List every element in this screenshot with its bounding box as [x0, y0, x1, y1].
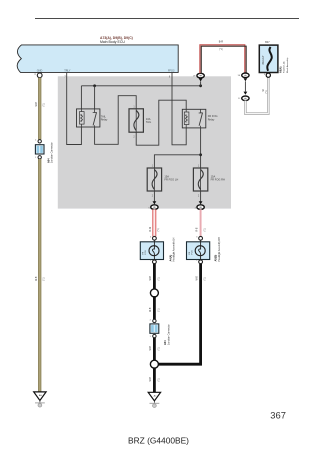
wire fuse bus: [154, 155, 200, 168]
node junction bus/TAIL switch: [93, 84, 96, 87]
svg-text:FOG: FOG: [191, 250, 193, 255]
svg-text:(*1): (*1): [158, 308, 160, 312]
wire W from in-line connector to fusible link: [245, 77, 268, 113]
connector exit RH (arrow + oval): [195, 201, 205, 209]
svg-text:W-B: W-B: [36, 276, 38, 281]
wire RH fuse to exit connector: [200, 191, 202, 202]
svg-text:FOG: FOG: [145, 250, 147, 255]
svg-text:Relay: Relay: [101, 118, 108, 122]
svg-text:1J: 1J: [238, 98, 240, 100]
wire LH fuse to exit connector: [153, 191, 155, 202]
svg-text:367: 367: [270, 409, 286, 420]
svg-text:B47: B47: [265, 41, 270, 44]
wire W-B ground (olive) lower: [36, 159, 46, 392]
svg-text:W-B: W-B: [196, 276, 198, 281]
wire R-W to LH fog lamp: [150, 209, 160, 236]
svg-text:R-B: R-B: [196, 227, 198, 231]
ground AJ (center): [148, 392, 160, 407]
wire +B bus inside block: [81, 85, 200, 87]
svg-text:W-B: W-B: [36, 102, 38, 107]
svg-text:B-R: B-R: [219, 40, 224, 43]
svg-text:Headlight Assembly LH: Headlight Assembly LH: [173, 237, 176, 261]
svg-text:Fusible Link: Fusible Link: [284, 60, 286, 73]
wire W-B splice 2 to ground: [150, 367, 160, 392]
svg-text:(*1): (*1): [204, 228, 206, 232]
svg-text:W-B: W-B: [150, 346, 152, 351]
wire W-B LH lamp to splice: [150, 264, 160, 290]
svg-text:FFG3: FFG3: [168, 69, 175, 72]
connector power entry oval on block top: [193, 73, 204, 86]
wire B-R from block to in-line connector: [200, 40, 246, 73]
wire TRLY from ECU to TAIL relay coil: [64, 73, 81, 145]
svg-text:FR FOG LH: FR FOG LH: [164, 178, 178, 182]
svg-text:Junction Connector: Junction Connector: [51, 142, 54, 163]
wire R-B to RH fog lamp: [196, 209, 206, 236]
label A73 Main Body ECU title: [100, 36, 133, 44]
wire W-B ground (olive) upper: [36, 78, 46, 140]
svg-text:(*1): (*1): [158, 378, 160, 382]
node GND pin 4: [34, 73, 42, 78]
lamp assembly RH: [187, 236, 221, 263]
svg-text:FR FOG RH: FR FOG RH: [211, 178, 225, 182]
junction connector A64 (left): [35, 140, 54, 163]
svg-text:AH: AH: [39, 394, 42, 397]
node splice connector B1: [150, 289, 158, 297]
svg-text:(*1): (*1): [266, 90, 268, 94]
svg-text:AJ: AJ: [154, 395, 157, 398]
wire W-B junction connector to splice 2: [150, 338, 160, 361]
svg-text:GND: GND: [37, 69, 43, 72]
wire bus to TAIL relay coil top: [80, 86, 82, 109]
lamp assembly LH: [140, 236, 175, 263]
connector in-line pair (1E / 1J): [238, 73, 250, 101]
svg-text:W-B: W-B: [150, 276, 152, 281]
wire bus to TAIL relay switch top: [94, 86, 96, 109]
svg-text:W-B: W-B: [150, 377, 152, 382]
svg-text:BRZ (G4400BE): BRZ (G4400BE): [128, 436, 189, 446]
svg-text:30A ALT: 30A ALT: [262, 55, 265, 65]
wire FR FOG switch output to fuses bus: [200, 128, 202, 168]
ECU A73 Main Body ECU box: [17, 45, 178, 73]
junction connector A64 (center): [150, 319, 171, 345]
node junction bus/FR FOG switch: [199, 84, 202, 87]
ground AH (left): [34, 392, 46, 407]
node junction fuse bus: [199, 153, 202, 156]
fuse 15A FR FOG LH: [147, 166, 178, 198]
svg-text:Block Assembly: Block Assembly: [286, 57, 289, 73]
grey junction block: [58, 76, 231, 208]
svg-text:(*1): (*1): [158, 228, 160, 232]
svg-text:(*1): (*1): [219, 48, 223, 51]
svg-text:A8(A): A8(A): [279, 66, 282, 73]
svg-text:Main Body ECU: Main Body ECU: [100, 40, 125, 44]
svg-text:(*1): (*1): [44, 277, 46, 281]
connector exit LH (arrow + oval): [148, 201, 158, 209]
svg-text:Relay: Relay: [208, 117, 215, 121]
svg-text:Headlight Assembly RH: Headlight Assembly RH: [218, 237, 221, 261]
fuse 10A TAIL: [129, 107, 152, 139]
svg-text:(*1): (*1): [158, 347, 160, 351]
wire W-B RH lamp down and across: [158, 264, 207, 365]
wire TAIL switch output to 10A TAIL fuse: [95, 96, 137, 145]
svg-text:(*1): (*1): [205, 277, 207, 281]
fusible link block B47: [259, 41, 289, 77]
node splice connector B2: [150, 360, 158, 368]
relay TAIL: [77, 109, 109, 127]
svg-text:A5(B): A5(B): [215, 255, 218, 262]
wire 10A TAIL fuse to FR FOG relay coil top: [136, 100, 186, 145]
svg-text:W-B: W-B: [150, 307, 152, 312]
header rule: [35, 18, 299, 20]
relay FR FOG: [182, 109, 217, 128]
fuse 15A FR FOG RH: [193, 166, 225, 198]
svg-text:(*1): (*1): [44, 103, 46, 107]
svg-text:TAIL: TAIL: [146, 120, 152, 124]
svg-text:A4(A): A4(A): [169, 255, 172, 262]
wire W-B splice to junction connector: [150, 296, 160, 319]
svg-text:(*1): (*1): [158, 277, 160, 281]
wire FFG3 from ECU to FR FOG relay coil bottom: [169, 73, 186, 145]
svg-text:TRLY: TRLY: [64, 69, 71, 72]
svg-text:Junction Connector: Junction Connector: [167, 324, 170, 345]
